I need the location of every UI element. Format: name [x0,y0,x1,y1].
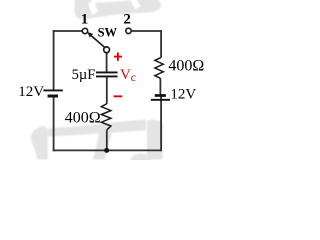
wire right between resistor and battery [159,78,161,95]
svg-text:c: c [131,72,136,84]
terminal 1 [82,28,87,33]
svg-text:12V: 12V [18,84,44,100]
resistor R2 400 ohm right [155,58,163,79]
svg-text:400Ω: 400Ω [65,110,101,127]
svg-text:1: 1 [81,12,89,28]
wire bottom [53,149,162,151]
svg-text:2: 2 [123,12,130,28]
wire capacitor to resistor R1 [106,77,108,104]
wire left lower [53,96,55,151]
label + polarity [114,53,122,61]
junction node [104,148,109,153]
wire right lower [160,95,162,151]
resistor R1 400 ohm bottom [101,104,111,130]
svg-text:5µF: 5µF [72,67,96,83]
wire right [160,30,162,58]
wire resistor R1 to bottom [106,130,108,151]
svg-text:12V: 12V [170,86,196,102]
label - polarity [114,95,123,97]
switch SW arm [91,36,105,48]
svg-text:V: V [120,67,131,83]
switch arrowhead [87,32,93,38]
capacitor C1 5uF [96,72,118,76]
wire switch pivot to capacitor [106,53,108,72]
terminal 2 [126,28,131,33]
switch pivot [104,47,110,53]
wire top-right [131,30,162,32]
background watermark (decorative) [31,0,163,170]
battery V1 12V left [43,90,62,96]
wire left [53,30,55,90]
battery V2 12V right [151,96,170,100]
wire top-left [53,30,83,32]
svg-text:SW: SW [98,25,118,39]
svg-text:400Ω: 400Ω [168,58,204,75]
